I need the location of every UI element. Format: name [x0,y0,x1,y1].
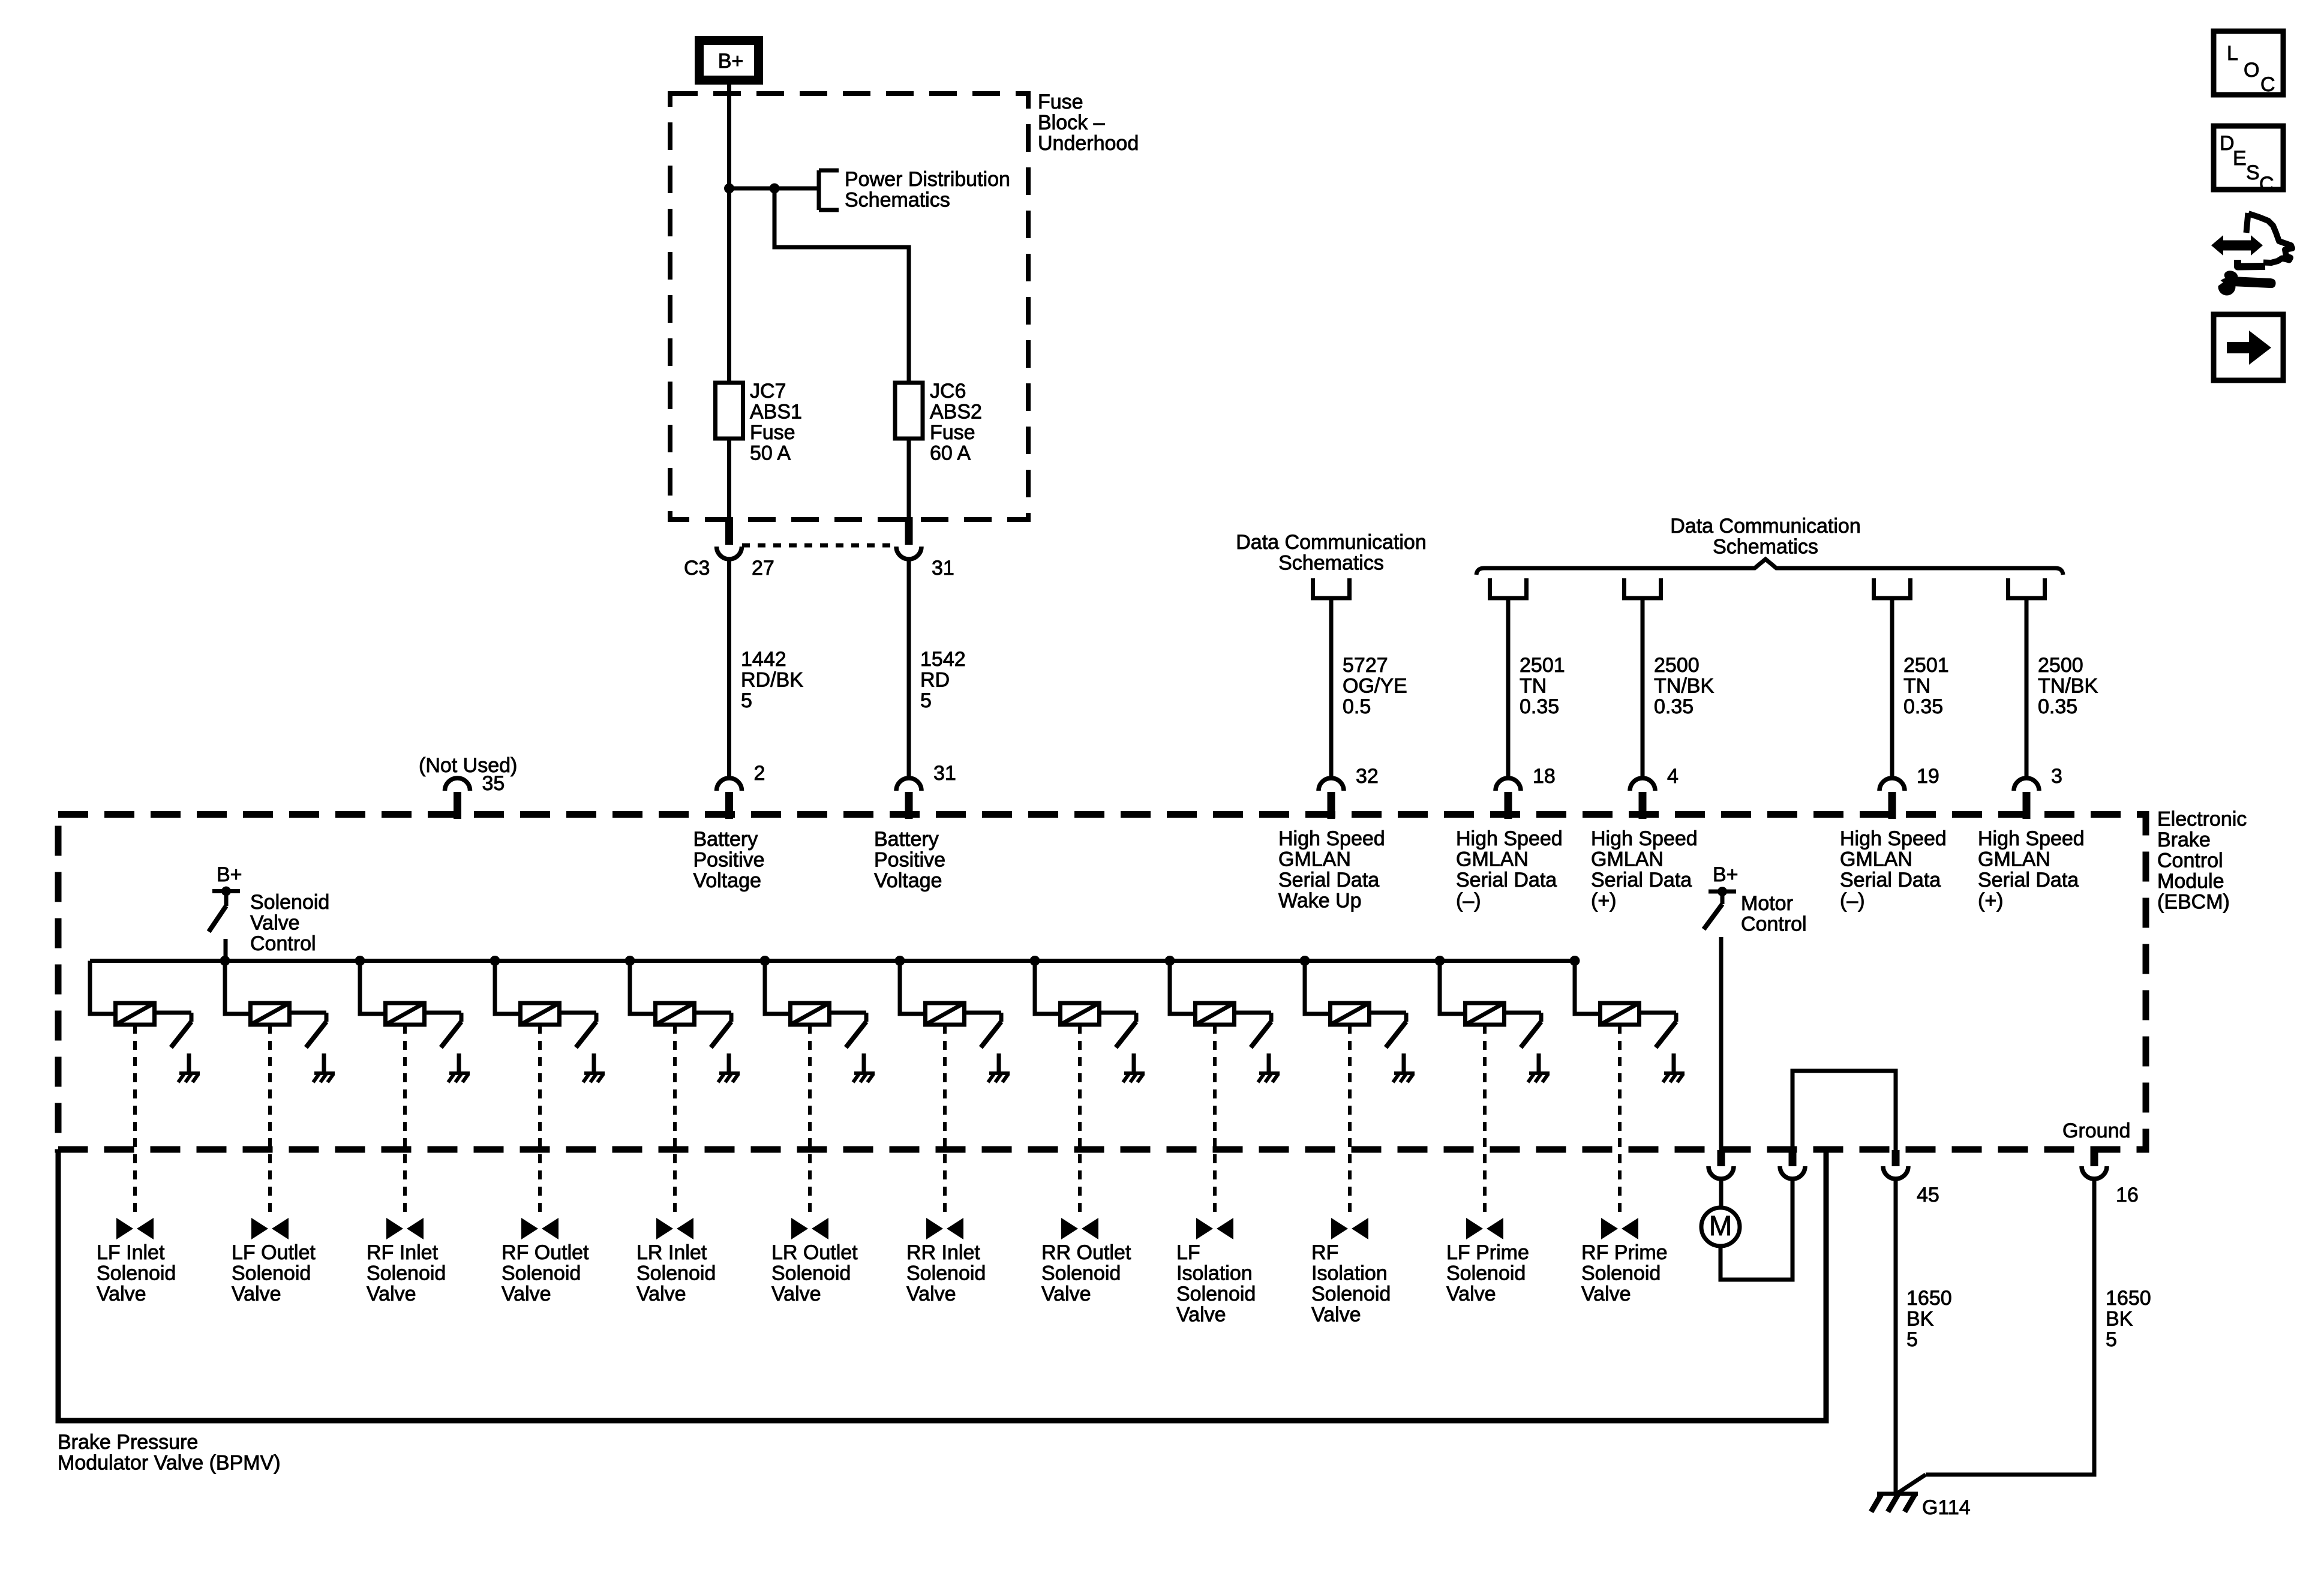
svg-text:C: C [2260,73,2275,96]
svg-text:2: 2 [754,762,765,785]
svg-text:19: 19 [1917,765,1939,788]
svg-text:BatteryPositiveVoltage: BatteryPositiveVoltage [693,828,765,892]
svg-text:L: L [2227,42,2238,65]
svg-text:Ground: Ground [2062,1119,2130,1142]
svg-text:B+: B+ [217,863,242,886]
svg-text:31: 31 [932,557,954,580]
svg-text:31: 31 [933,762,956,785]
svg-text:S: S [2246,161,2260,184]
svg-text:M: M [1709,1210,1732,1241]
svg-text:E: E [2233,147,2247,170]
svg-text:B+: B+ [1713,863,1739,886]
svg-text:(Not Used): (Not Used) [419,754,517,777]
svg-text:3: 3 [2051,765,2062,788]
svg-text:18: 18 [1533,765,1556,788]
svg-text:C3: C3 [684,557,710,580]
svg-text:32: 32 [1356,765,1379,788]
svg-text:B+: B+ [718,50,744,73]
svg-text:16: 16 [2116,1184,2139,1206]
svg-text:C: C [2259,173,2274,196]
svg-text:G114: G114 [1922,1496,1971,1519]
svg-text:4: 4 [1667,765,1679,788]
svg-text:D: D [2220,132,2235,155]
svg-text:O: O [2244,59,2259,82]
svg-text:BatteryPositiveVoltage: BatteryPositiveVoltage [874,828,945,892]
svg-text:45: 45 [1917,1184,1939,1206]
svg-text:27: 27 [752,557,774,580]
